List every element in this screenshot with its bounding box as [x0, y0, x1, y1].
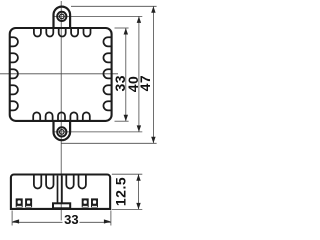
dim line 33 bottom left segment — [12, 221, 62, 223]
ext line 47 bottom — [61, 142, 156, 144]
top ear lug — [54, 7, 71, 28]
centerline horizontal body axis — [0, 73, 118, 75]
ext line 12.5 top — [112, 173, 143, 175]
ext line 33b left — [11, 211, 13, 226]
bottom ear hole — [57, 127, 66, 136]
ext line hole centerline top — [53, 15, 143, 17]
centerline vertical axis — [60, 1, 62, 221]
center stud — [57, 176, 59, 203]
svg-text:12.5: 12.5 — [113, 177, 129, 206]
body outline — [11, 175, 110, 209]
bottom edge slots — [33, 112, 90, 121]
top slots — [34, 175, 86, 189]
ext line hole centerline bottom — [53, 131, 143, 133]
svg-text:47: 47 — [137, 75, 153, 92]
mounting feet — [16, 198, 98, 207]
SIDE VIEW — [11, 175, 110, 209]
ext line 47 top — [71, 5, 157, 7]
ext line 12.5 bottom — [112, 208, 143, 210]
bottom ear lug — [54, 121, 71, 140]
body outline — [10, 28, 112, 121]
TOP VIEW — [9, 7, 112, 141]
top ear hole — [57, 12, 66, 21]
ext line 33 top — [115, 27, 129, 29]
stud base block — [53, 203, 70, 208]
dim line 12.5 — [138, 174, 140, 209]
ext line 33b right — [110, 211, 112, 226]
svg-text:33: 33 — [64, 212, 78, 227]
dim line 47 — [152, 6, 154, 143]
arrowheads — [12, 6, 156, 223]
dim line 33 bottom right segment — [80, 221, 111, 223]
top edge slots — [34, 28, 91, 37]
right edge slots — [103, 37, 112, 110]
dim line 40 — [138, 16, 140, 131]
left edge slots — [9, 37, 18, 110]
feet holes — [17, 200, 97, 207]
dim line 33 — [125, 28, 127, 121]
ext line 33 bottom — [115, 120, 129, 122]
